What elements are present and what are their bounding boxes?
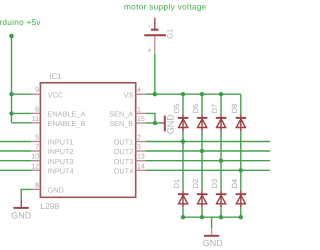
svg-text:ENABLE_B: ENABLE_B [48,119,86,128]
junction OUT2 col D6 [200,149,204,153]
pin 2 OUT1 stub [136,141,146,143]
svg-text:VS: VS [123,90,133,99]
diode D3 [216,191,227,208]
wire bus to ground [211,217,213,228]
junction SEN [153,121,157,125]
svg-text:2: 2 [137,135,141,142]
wire column D6/D2 [201,94,203,217]
battery G1 short plate [151,29,159,31]
op-amp/ic IC1 box L298 [40,83,135,198]
svg-text:7: 7 [35,144,39,151]
diode D8 [236,114,247,131]
wire INPUT4 [0,169,31,171]
junction bus D4 [239,215,243,219]
svg-text:D5: D5 [172,104,181,114]
svg-text:L298: L298 [40,201,59,211]
wire to ENABLE_A pin6 [12,112,32,114]
svg-text:D7: D7 [210,104,219,114]
pin 13 OUT3 stub [136,160,146,162]
wire +5v to VCC pin9 [12,93,32,95]
wire column D8/D4 [240,94,242,217]
wire column D7/D3 [220,94,222,217]
supply node dot +5v [9,34,14,39]
ground symbol sense: bar [164,116,166,132]
wire OUT2 [145,150,270,152]
svg-text:15: 15 [137,116,145,123]
junction bus D1 [181,215,185,219]
svg-text:D1: D1 [172,179,181,189]
wire column D5/D1 [182,94,184,217]
svg-text:GND: GND [203,238,224,248]
pin 3 OUT2 stub [136,150,146,152]
svg-text:IC1: IC1 [49,72,62,81]
svg-text:INPUT1: INPUT1 [48,138,74,147]
svg-text:1: 1 [137,106,141,113]
wire SEN_A [145,113,155,123]
wire VS top bus [145,93,241,95]
diode D5 [178,114,189,131]
svg-text:SEN_B: SEN_B [109,119,133,128]
wire to ENABLE_B pin11 [12,122,32,124]
wire SEN_B [145,122,161,124]
ground symbol sense: stub [161,122,164,124]
diode D4 [236,191,247,208]
svg-text:VCC: VCC [48,90,63,99]
wire GND pin8 [21,189,31,198]
svg-text:G1: G1 [165,29,174,39]
junction battery/VS [153,92,157,96]
svg-text:3: 3 [137,144,141,151]
junction OUT4 col D8 [239,168,243,172]
svg-text:D2: D2 [191,179,200,189]
svg-text:motor supply voltage: motor supply voltage [124,3,207,12]
svg-text:D3: D3 [210,179,219,189]
junction OUT1 col D5 [181,139,185,143]
junction bus col D6 [200,92,204,96]
wire +5v vertical [11,36,13,123]
svg-text:OUT1: OUT1 [114,138,133,147]
svg-text:9: 9 [35,87,39,94]
svg-text:14: 14 [137,163,145,170]
pin 14 OUT4 stub [136,169,146,171]
diode D1 [178,191,189,208]
pin 9 VCC stub [31,93,40,95]
wire INPUT2 [0,150,31,152]
svg-text:+: + [147,47,151,54]
pin 6 stub [31,112,40,114]
ground symbol left: stub [20,199,22,207]
pin 8 stub [31,188,40,190]
junction bus col D7 [219,92,223,96]
battery G1 lower pin [154,36,156,54]
diode D6 [197,114,208,131]
svg-text:OUT4: OUT4 [114,166,133,175]
wire INPUT3 [0,160,31,162]
svg-text:-: - [148,23,151,30]
ground symbol bottom: stub [211,228,213,235]
junction bus col D5 [181,92,185,96]
svg-text:13: 13 [137,154,145,161]
wire OUT3 [145,160,270,162]
svg-text:GND: GND [11,210,32,220]
svg-text:10: 10 [31,154,39,161]
svg-text:8: 8 [35,182,39,189]
ground symbol bottom: bar [204,235,219,237]
wire OUT4 [145,169,270,171]
svg-text:11: 11 [32,116,39,123]
svg-text:D6: D6 [191,104,200,114]
svg-text:INPUT2: INPUT2 [48,147,74,156]
svg-text:INPUT4: INPUT4 [48,166,74,175]
junction ENABLE_A [9,111,13,115]
svg-text:D8: D8 [230,104,239,114]
junction VCC [9,92,13,96]
svg-text:GND: GND [165,114,175,135]
pin 5 stub [31,141,40,143]
svg-text:6: 6 [35,106,39,113]
svg-text:12: 12 [31,163,39,170]
svg-text:arduino +5v: arduino +5v [0,18,41,27]
wire OUT1 [145,141,270,143]
wire battery to VS bus [154,54,156,94]
pin 12 stub [31,169,40,171]
svg-text:5: 5 [35,135,39,142]
wire INPUT1 [0,141,31,143]
pin 1 SEN_A stub [136,112,146,114]
battery G1 long plate [144,34,166,36]
diode D7 [216,114,227,131]
pin 11 stub [31,122,40,124]
diode D2 [197,191,208,208]
svg-text:4: 4 [137,87,141,94]
svg-text:OUT2: OUT2 [114,147,133,156]
svg-text:ENABLE_A: ENABLE_A [48,110,86,119]
ground symbol left: bar [13,207,28,209]
battery G1 upper pin [154,18,156,29]
pin 10 stub [31,160,40,162]
svg-text:GND: GND [48,186,64,195]
svg-text:D4: D4 [230,179,239,189]
junction OUT3 col D7 [219,159,223,163]
pin 7 stub [31,150,40,152]
svg-text:OUT3: OUT3 [114,157,133,166]
pin 15 SEN_B stub [136,122,146,124]
pin 4 VS stub [136,93,146,95]
svg-text:SEN_A: SEN_A [109,110,133,119]
junction bus D3 [219,215,223,219]
wire bottom GND bus [183,216,241,218]
svg-text:INPUT3: INPUT3 [48,157,74,166]
junction bus D2 [200,215,204,219]
